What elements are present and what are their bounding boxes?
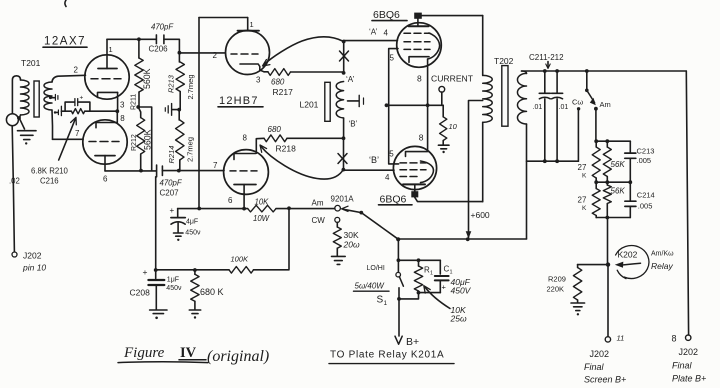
svg-text:C207: C207 — [160, 189, 180, 198]
wiper arrow to pot — [342, 206, 349, 211]
pointer arrow to R210 — [59, 119, 76, 161]
svg-text:2.7meg: 2.7meg — [186, 137, 195, 162]
svg-text:R214: R214 — [167, 146, 176, 164]
capacitor C208 1uF 450V — [155, 270, 157, 278]
svg-text:R209: R209 — [548, 275, 566, 284]
svg-text:11: 11 — [617, 334, 625, 343]
tube 12AX7 lower plate pin 8 — [96, 123, 117, 128]
tube 12AX7 upper cathode pin 3 — [98, 92, 118, 97]
svg-text:6BQ6: 6BQ6 — [380, 194, 407, 206]
node R211-R212 — [136, 105, 140, 109]
relay K202 arc — [616, 246, 649, 279]
node R1 zigzag top — [417, 258, 421, 262]
svg-text:Am: Am — [600, 100, 611, 109]
svg-text:Final: Final — [584, 362, 605, 372]
svg-text:J202: J202 — [590, 349, 610, 359]
resistor R212 560K — [138, 107, 141, 118]
node Am contact — [594, 107, 598, 111]
svg-text:+: + — [442, 283, 447, 292]
node B plus top — [396, 237, 400, 241]
wire jack to J202 pin 10 — [12, 126, 14, 252]
capacitor C206 — [155, 35, 157, 44]
terminal J202-11 — [605, 337, 610, 342]
transformer T201 primary winding — [12, 76, 20, 114]
wire plus600 down — [468, 202, 470, 240]
jack J201 terminal — [6, 114, 18, 126]
tube 12AX7 lower cathode pin 6 — [95, 155, 115, 157]
svg-text:2: 2 — [213, 51, 218, 60]
wire T201 to grid pin 7 — [53, 138, 84, 140]
svg-text:Screen B+: Screen B+ — [584, 375, 626, 385]
X mark upper — [340, 51, 349, 61]
node A upper — [342, 40, 346, 44]
ground below 680K — [189, 309, 200, 311]
svg-text:7: 7 — [213, 161, 218, 170]
node ladder bottom — [605, 216, 609, 220]
svg-text:8: 8 — [672, 334, 677, 344]
wire left rail down — [198, 18, 200, 209]
svg-text:(original): (original) — [207, 348, 269, 365]
node 680K tap — [193, 268, 197, 272]
arrow B plus — [395, 336, 402, 344]
wire right loop down — [288, 208, 290, 268]
transformer T202 secondary — [522, 71, 527, 73]
tube 6BQ6 lower plate cap — [411, 191, 418, 197]
svg-text:.01: .01 — [559, 104, 569, 111]
wire 100K line — [156, 269, 229, 271]
relay K202 arm — [624, 263, 641, 265]
svg-text:CW: CW — [312, 216, 326, 225]
nodes ladder mid — [594, 180, 598, 184]
wire down to S1 — [397, 239, 399, 272]
node R213-R214 ground — [177, 108, 181, 112]
tube 12HB7 lower envelope — [224, 150, 269, 195]
tube 12HB7 lower cathode pin 6 — [234, 184, 256, 186]
wire screen bus — [389, 49, 399, 164]
wire ladder bottom — [596, 217, 630, 219]
svg-text:+: + — [143, 267, 148, 277]
switch S1 — [396, 272, 401, 277]
resistor R210 6.8K with C216 box — [61, 110, 71, 112]
svg-text:2: 2 — [74, 66, 79, 75]
wire bypass right of R212 — [138, 107, 152, 170]
node ladder top mid — [605, 139, 609, 143]
node Am switch — [585, 69, 589, 73]
ground at T201 jack — [20, 119, 25, 129]
terminal J202 pin 10 — [12, 252, 17, 257]
stray mark — [65, 0, 66, 7]
node R214 bottom — [177, 169, 181, 173]
resistor R218 680 — [287, 137, 344, 139]
svg-text:1: 1 — [384, 300, 388, 307]
svg-text:T202: T202 — [494, 56, 514, 66]
wire to Am pot — [289, 208, 335, 210]
ground below 10 — [438, 144, 449, 146]
svg-text:S: S — [377, 295, 384, 306]
svg-text:B+: B+ — [406, 336, 419, 348]
tube 6BQ6 upper cathode — [409, 57, 429, 63]
tube 6BQ6 upper envelope — [397, 23, 442, 68]
tube 6BQ6 lower envelope — [393, 146, 436, 189]
resistor 56K upper — [606, 141, 608, 147]
svg-text:680 K: 680 K — [200, 287, 224, 297]
svg-text:10W: 10W — [253, 214, 270, 223]
wire C206 to node — [164, 39, 180, 52]
svg-text:27: 27 — [578, 196, 587, 205]
capacitor C214 .005 — [629, 182, 631, 201]
svg-text:12AX7: 12AX7 — [44, 36, 86, 48]
node cathode bus right — [287, 206, 291, 210]
resistor 56K lower — [606, 182, 608, 185]
wire node A to 6BQ6 grid — [344, 40, 398, 42]
svg-text:.01: .01 — [533, 104, 543, 111]
wire cathode pin 8 upper — [427, 59, 429, 105]
wire C207 down to C208 node — [155, 177, 157, 270]
wire C207 to node — [162, 170, 178, 172]
tube 12HB7 upper cathode pin 3 — [240, 64, 264, 72]
svg-text:1: 1 — [109, 45, 113, 54]
svg-text:8: 8 — [120, 114, 125, 123]
svg-text:220K: 220K — [547, 285, 565, 294]
tube 12AX7 upper triode envelope — [85, 55, 129, 99]
capacitor C1 40uF 450V — [439, 260, 441, 274]
svg-text:C213: C213 — [637, 147, 655, 156]
ground below R209 — [571, 302, 585, 304]
svg-text:2.7meg: 2.7meg — [186, 74, 195, 99]
tube 6BQ6 lower plate bar — [403, 183, 425, 185]
svg-text:J202: J202 — [23, 251, 42, 261]
tube 12AX7 lower grid dashes — [89, 141, 119, 143]
svg-text:R218: R218 — [276, 144, 297, 154]
terminal CW — [335, 217, 340, 222]
coupling cap at T201 top — [49, 96, 52, 99]
svg-text:.02: .02 — [9, 176, 20, 185]
node R212 bottom — [139, 169, 143, 173]
wire K202 to screen terminal — [607, 267, 609, 337]
svg-text:6.8K R210: 6.8K R210 — [31, 167, 69, 176]
wire T202 primary feed — [482, 16, 484, 76]
resistor R214 2.7meg — [178, 110, 180, 120]
wire ladder top — [596, 140, 630, 142]
svg-text:680: 680 — [268, 125, 282, 134]
node cap1 bottom — [543, 159, 547, 163]
svg-text:6: 6 — [228, 196, 233, 205]
wire primary bottom down — [482, 122, 484, 201]
ground between R213 R214 — [172, 109, 179, 111]
svg-text:TO Plate Relay K201A: TO Plate Relay K201A — [330, 350, 444, 361]
inductor L201 slug tap — [348, 100, 359, 102]
svg-text:C211-212: C211-212 — [529, 53, 564, 62]
svg-text:56K: 56K — [611, 160, 626, 169]
svg-text:LO/HI: LO/HI — [367, 265, 385, 272]
svg-text:3: 3 — [120, 101, 125, 110]
svg-text:4: 4 — [384, 29, 389, 38]
node R211 top — [137, 37, 141, 41]
meter terminal — [439, 86, 445, 92]
potentiometer 9201A terminal — [335, 205, 341, 211]
tube 12AX7 upper grid dashes — [91, 78, 121, 80]
svg-text:1: 1 — [250, 20, 254, 29]
wire B plus bus — [398, 238, 526, 240]
node S1 bottom — [397, 297, 401, 301]
svg-text:450ν: 450ν — [185, 230, 201, 237]
svg-text:100K: 100K — [231, 255, 250, 264]
svg-text:8: 8 — [419, 133, 424, 143]
node B lower — [342, 168, 346, 172]
resistor 680K — [194, 270, 196, 274]
node C206-R213-grid — [178, 51, 182, 55]
wire lower plate to T202 — [415, 197, 483, 201]
node pins 3-8 — [115, 109, 119, 113]
svg-text:T201: T201 — [21, 58, 41, 68]
svg-text:3: 3 — [256, 76, 261, 85]
svg-text:8: 8 — [243, 134, 248, 143]
wire pin8 to lower tube — [427, 105, 429, 151]
node R1 top tap — [397, 258, 401, 262]
svg-text:12HB7: 12HB7 — [219, 95, 259, 107]
transformer T202 primary — [483, 75, 493, 122]
svg-text:1μF: 1μF — [167, 277, 179, 284]
tube 12HB7 upper plate pin 1 — [238, 30, 260, 32]
svg-text:K: K — [582, 173, 587, 180]
wire HV bus — [522, 70, 687, 72]
resistor 27K upper — [595, 141, 597, 147]
svg-text:450ν: 450ν — [166, 285, 182, 292]
wire secondary tap — [527, 160, 579, 162]
wire cathode bus 10K — [178, 208, 248, 210]
node screen-cathode-meter — [385, 103, 389, 107]
svg-text:30K: 30K — [344, 230, 359, 240]
node cap1 — [543, 69, 547, 73]
wire plate pin1 bus — [107, 38, 156, 40]
svg-text:20ω: 20ω — [343, 240, 360, 250]
tube 12HB7 upper grid dashes — [231, 53, 258, 55]
svg-text:pin 10: pin 10 — [22, 263, 46, 273]
svg-text:10K: 10K — [255, 198, 270, 207]
wire to 12HB7 grid pin 2 — [179, 52, 225, 54]
svg-text:C216: C216 — [40, 176, 59, 185]
node B-prime — [342, 136, 346, 140]
resistor R211 560K — [138, 39, 140, 58]
svg-text:+: + — [170, 206, 175, 215]
svg-text:5: 5 — [390, 54, 395, 63]
svg-text:560K: 560K — [142, 68, 152, 89]
svg-text:IV: IV — [180, 345, 197, 361]
capacitor C207 — [156, 165, 158, 177]
svg-text:C214: C214 — [637, 191, 655, 200]
node A-prime — [342, 71, 346, 75]
tube 6BQ6 upper plate bar — [409, 25, 429, 27]
terminal CW right — [577, 107, 580, 110]
tube 12HB7 upper envelope — [226, 31, 270, 75]
curved wire pin8 to node B — [261, 147, 343, 180]
node ladder top left — [594, 139, 598, 143]
resistor R213 2.7meg — [178, 53, 180, 62]
svg-text:.005: .005 — [638, 202, 653, 211]
resistor R217 680 — [268, 69, 291, 76]
svg-text:9201A: 9201A — [331, 195, 355, 204]
ground below C208 — [150, 309, 167, 311]
svg-text:27: 27 — [578, 163, 587, 172]
tube 12AX7 upper plate pin 1 — [98, 68, 117, 70]
wire cathode to C207 — [105, 170, 156, 172]
node on wiper — [359, 211, 363, 215]
wire grid pin 7 12HB7 — [179, 170, 224, 172]
svg-text:25ω: 25ω — [450, 314, 467, 324]
svg-text:10: 10 — [449, 122, 458, 131]
svg-text:L201: L201 — [300, 100, 319, 110]
tube 6BQ6 upper grids — [404, 32, 430, 34]
svg-text:680: 680 — [271, 77, 285, 86]
terminal J202-8 — [686, 335, 691, 340]
resistor R209 220K — [578, 264, 608, 266]
node pin6 join — [242, 207, 246, 211]
node plus600 tap — [466, 237, 470, 241]
capacitor C212 .01 — [556, 71, 558, 93]
svg-text:Relay: Relay — [651, 261, 673, 271]
wire secondary down — [526, 124, 528, 239]
tube 6BQ6 lower cathode — [406, 152, 428, 157]
node C208 — [154, 268, 158, 272]
svg-text:5ω/40W: 5ω/40W — [355, 282, 386, 291]
capacitor C213 .005 — [629, 141, 631, 153]
switch Am — [586, 71, 588, 90]
wire plus600 loop — [469, 101, 483, 202]
wire A column — [343, 42, 345, 73]
svg-text:‘A’: ‘A’ — [369, 28, 378, 37]
tube 6BQ6 upper plate cap — [414, 13, 422, 19]
svg-text:8: 8 — [417, 74, 422, 84]
svg-text:Plate B+: Plate B+ — [672, 374, 706, 384]
svg-text:1: 1 — [450, 270, 453, 276]
svg-text:470pF: 470pF — [160, 179, 183, 188]
wire T201 to 12AX7 grid pin 2 — [52, 75, 86, 82]
capacitor C211 .01 — [544, 71, 546, 93]
arrow plus600 — [466, 231, 472, 238]
svg-text:CURRENT: CURRENT — [431, 74, 474, 84]
svg-text:.005: .005 — [637, 156, 652, 165]
wire box bottom to S1 line — [399, 293, 419, 299]
node left rail join — [197, 207, 201, 211]
resistor 10 cathode — [442, 105, 444, 117]
tube 6BQ6 lower grids — [400, 162, 426, 164]
svg-text:R217: R217 — [273, 87, 294, 97]
wire upper plate to T202 — [422, 15, 483, 17]
svg-text:1: 1 — [430, 271, 433, 277]
svg-text:K202: K202 — [618, 250, 638, 260]
svg-text:Cω: Cω — [572, 98, 583, 107]
svg-text:R213: R213 — [167, 74, 176, 93]
svg-text:Am: Am — [312, 199, 324, 208]
curved wire pin3 to node A — [264, 37, 344, 65]
transformer T202 core — [502, 66, 508, 127]
tube 12HB7 lower grid dashes — [230, 170, 257, 172]
pointer arrow 10K 25W — [425, 287, 451, 309]
resistor 27K lower — [595, 182, 597, 188]
wire S1 to B plus out — [398, 288, 400, 336]
svg-text:+: + — [80, 95, 84, 102]
svg-text:450V: 450V — [451, 286, 472, 296]
svg-text:470pF: 470pF — [151, 23, 174, 32]
svg-text:K: K — [582, 205, 587, 212]
X mark lower — [338, 154, 347, 164]
transformer T201 secondary winding — [44, 82, 52, 110]
transformer T201 core — [34, 81, 39, 117]
tube 12AX7 lower triode envelope — [83, 120, 127, 164]
svg-text:7: 7 — [75, 129, 80, 138]
svg-text:‘B’: ‘B’ — [349, 120, 358, 129]
svg-text:4: 4 — [385, 173, 390, 182]
inductor L201 winding — [336, 82, 343, 118]
wire R1 box top — [398, 259, 440, 261]
svg-text:‘A’: ‘A’ — [346, 75, 355, 84]
svg-text:C208: C208 — [130, 288, 151, 298]
resistor 30K 20W — [336, 222, 338, 227]
svg-text:R212: R212 — [131, 134, 138, 151]
inductor L201 core — [325, 82, 330, 121]
node cap2 bottom — [555, 159, 559, 163]
svg-text:4μF: 4μF — [186, 219, 198, 226]
wire ladder to K202 — [607, 218, 609, 265]
node K202 — [606, 262, 610, 266]
wire ladder mid — [596, 181, 630, 183]
tube 12HB7 lower plate pin 8 — [234, 154, 256, 160]
resistor R1 10K 25W — [418, 260, 420, 266]
svg-text:J202: J202 — [679, 347, 699, 357]
node R1 bottom — [417, 291, 421, 295]
ground below 30K — [332, 255, 346, 257]
wire R1 box bottom — [419, 292, 441, 294]
svg-text:560K: 560K — [143, 129, 153, 150]
svg-text:C206: C206 — [149, 45, 169, 54]
wire final plate B+ — [686, 71, 688, 335]
svg-text:Figure: Figure — [123, 345, 165, 361]
svg-text:56K: 56K — [611, 187, 626, 196]
svg-text:‘B’: ‘B’ — [369, 155, 379, 165]
svg-text:Final: Final — [672, 361, 693, 371]
coupling cap C216 left mark — [54, 111, 56, 113]
svg-text:5: 5 — [389, 150, 394, 159]
wiper wire to B node — [361, 213, 398, 240]
wire 12HB7 upper plate to left rail — [199, 17, 248, 19]
capacitor 4uF 450V — [177, 209, 179, 218]
svg-text:6: 6 — [103, 175, 108, 184]
svg-text:6BQ6: 6BQ6 — [373, 9, 400, 21]
svg-text:+600: +600 — [471, 210, 490, 220]
wire meter line — [387, 104, 444, 106]
svg-text:Am/Kω: Am/Kω — [651, 251, 674, 258]
wire node B to 6BQ6 grid — [343, 169, 394, 171]
wire B column — [343, 138, 345, 169]
node cap2 — [555, 69, 559, 73]
